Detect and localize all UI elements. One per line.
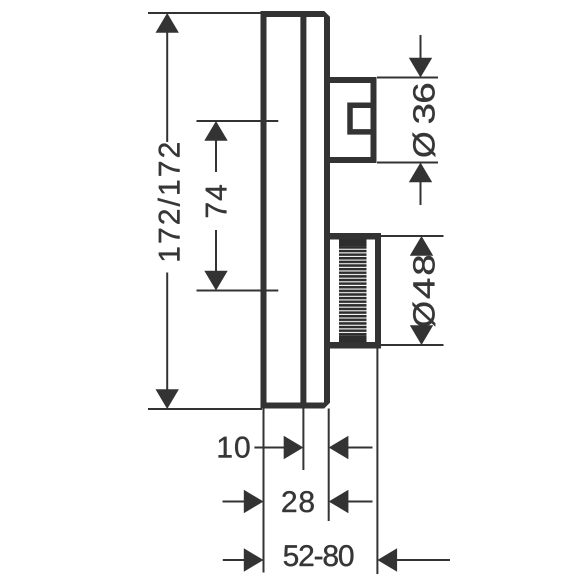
- dim 74 line lower: [215, 230, 217, 272]
- arrow down inside Ø48: [410, 325, 433, 345]
- dim 52-80 right tail: [396, 559, 450, 561]
- dim 172/172 line upper: [166, 31, 168, 142]
- label 28: [282, 491, 313, 512]
- arrow down 172: [156, 389, 179, 409]
- arrow right to A (52-80): [244, 548, 264, 571]
- arrow up inside Ø48: [410, 236, 433, 256]
- escutcheon plate outline: [264, 14, 328, 406]
- dim 74 line upper: [215, 139, 217, 172]
- dim 10 left tail: [254, 447, 284, 449]
- arrow right to A: [244, 490, 264, 513]
- label 10: [219, 437, 250, 458]
- dim 172/172 line lower: [166, 273, 168, 392]
- label 74: [206, 185, 227, 217]
- arrow up to Ø36 bottom: [409, 163, 432, 183]
- label Ø36: [413, 84, 436, 157]
- arrow left to C: [329, 436, 349, 459]
- handle outer profile: [327, 80, 374, 160]
- plate bottom-right corner chamfer: [324, 402, 331, 409]
- dim Ø36 upper tail: [420, 35, 422, 59]
- dim 28 left tail: [223, 501, 245, 503]
- arrow up 172: [156, 13, 179, 33]
- knob top bar: [327, 233, 381, 240]
- dim 74 bottom extension line (knob centerline): [197, 290, 279, 292]
- arrow left to D: [377, 548, 397, 571]
- extension line C (plate back face): [328, 409, 330, 522]
- dim 52-80 left tail: [223, 559, 245, 561]
- knob right edge: [375, 233, 381, 349]
- plate divider line: [300, 14, 306, 406]
- dim Ø36 lower tail: [420, 181, 422, 205]
- arrow up 74: [204, 121, 227, 141]
- dim 10 right arrow tail: [347, 447, 372, 449]
- dim Ø48 top extension line: [381, 235, 444, 237]
- dim Ø48 bottom extension line: [381, 344, 444, 346]
- dim 172/172 bottom extension line: [148, 408, 262, 410]
- knob knurled grip: [339, 240, 367, 343]
- label Ø48: [413, 256, 436, 326]
- knob bottom bar: [327, 342, 381, 349]
- arrow right to B: [284, 436, 304, 459]
- dim 28 right tail: [347, 501, 372, 503]
- label 172/172: [158, 143, 180, 260]
- knurl solid bottom cap: [339, 336, 367, 343]
- extension line D (knob face): [376, 349, 378, 575]
- plate top-right corner chamfer: [324, 11, 331, 18]
- dim Ø36 top extension line: [377, 77, 438, 79]
- arrow left to C (28): [329, 490, 349, 513]
- extension line B (divider): [302, 409, 304, 471]
- handle inner step: [350, 105, 376, 132]
- dim Ø36 bottom extension line: [377, 162, 438, 164]
- label 52-80: [284, 545, 354, 566]
- dim 172/172 top extension line: [148, 12, 262, 14]
- dim 74 top extension line (handle centerline): [197, 120, 279, 122]
- knurl solid top cap: [339, 240, 367, 247]
- arrow down to Ø36 top: [409, 58, 432, 78]
- arrow down 74: [204, 271, 227, 291]
- extension line A (plate front face): [263, 409, 265, 573]
